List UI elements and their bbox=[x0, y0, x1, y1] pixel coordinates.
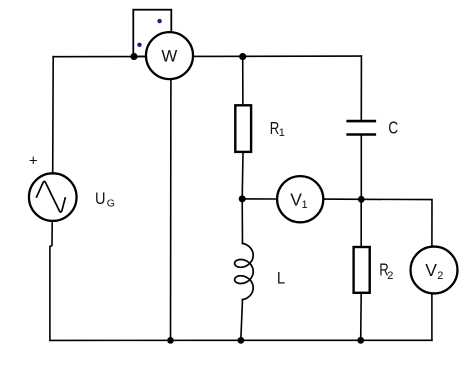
svg-text:C: C bbox=[388, 118, 398, 138]
svg-text:1: 1 bbox=[302, 199, 308, 211]
svg-text:W: W bbox=[161, 47, 177, 66]
svg-text:V: V bbox=[425, 260, 437, 280]
svg-text:+: + bbox=[29, 152, 38, 169]
svg-text:U: U bbox=[95, 190, 106, 208]
svg-text:G: G bbox=[107, 197, 115, 209]
svg-text:V: V bbox=[290, 189, 302, 209]
svg-text:1: 1 bbox=[279, 127, 285, 139]
svg-text:2: 2 bbox=[387, 270, 393, 282]
svg-text:L: L bbox=[277, 268, 285, 287]
svg-text:2: 2 bbox=[437, 270, 443, 282]
